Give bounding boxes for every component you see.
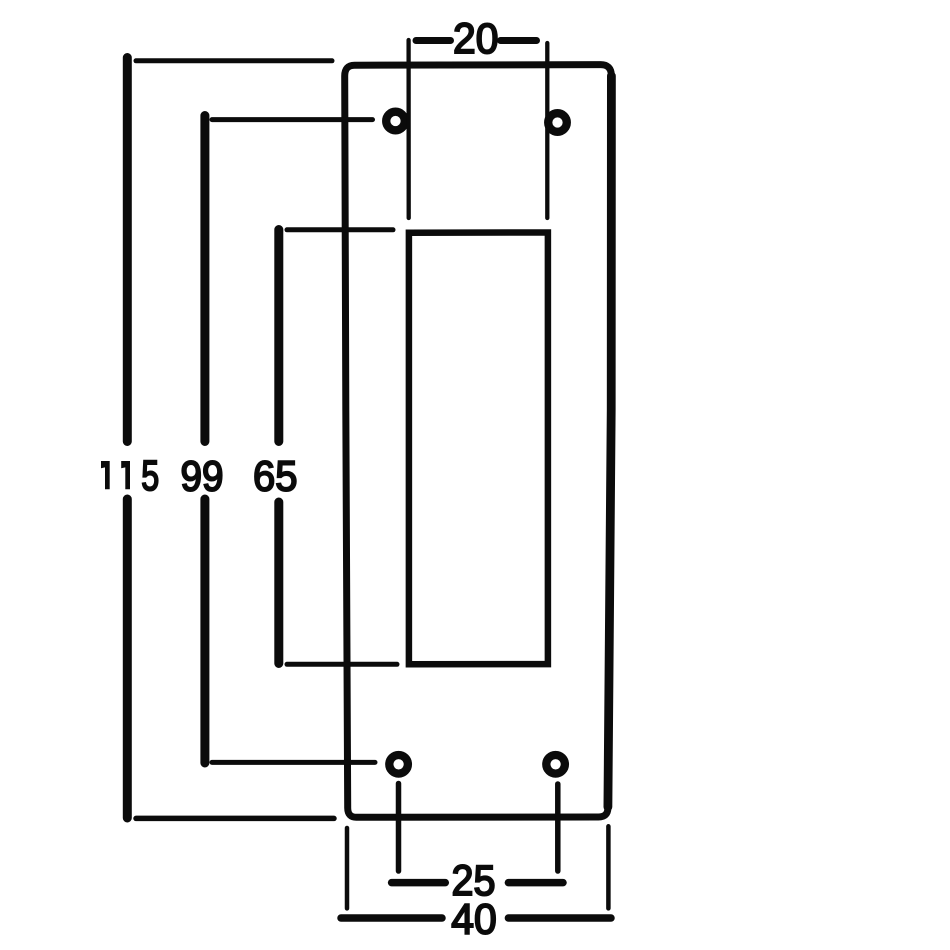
dimension 40 extension line left (345, 828, 350, 908)
dimension 99 vertical line (200, 116, 209, 764)
dimension 99 bottom arm (212, 760, 375, 765)
inner rectangle cutout (409, 233, 548, 665)
dimension 20 dash right (501, 37, 537, 44)
dimension 20 dash left (416, 37, 451, 44)
svg-text:99: 99 (180, 452, 223, 500)
svg-text:5: 5 (141, 453, 159, 501)
plate outline (345, 65, 612, 818)
dimension 25 dash left (392, 879, 446, 887)
svg-text:65: 65 (253, 451, 297, 500)
plate right edge (thicker stroke) (608, 76, 612, 807)
dimension 20 extension line left (406, 40, 410, 218)
dimension 40 dash right (508, 914, 611, 922)
dimension 65 bottom arm (287, 662, 397, 667)
dimension 20 extension line right (545, 43, 549, 218)
dimension 25 extension line right (555, 784, 561, 871)
label 115 : digit 1 (121, 461, 130, 489)
screw hole bottom-right (546, 755, 565, 774)
dimension 40 dash left (341, 914, 442, 922)
dimension 115 vertical line (123, 58, 132, 819)
label 115 : digit 1 (101, 461, 110, 489)
dimension 65 vertical line (274, 230, 283, 664)
dimension 25 dash right (508, 879, 563, 887)
dimension 25 extension line left (396, 784, 402, 872)
screw hole top-right (548, 113, 567, 132)
dimension 40 extension line right (606, 826, 611, 908)
dimension 115 top arm (136, 58, 332, 63)
dimension 65 top arm (287, 227, 393, 232)
screw hole bottom-left (389, 755, 408, 774)
svg-text:40: 40 (451, 895, 496, 943)
dimension 99 top arm (212, 117, 373, 122)
svg-text:20: 20 (453, 14, 498, 62)
screw hole top-left (386, 112, 405, 131)
dimension 115 bottom arm (136, 816, 334, 822)
